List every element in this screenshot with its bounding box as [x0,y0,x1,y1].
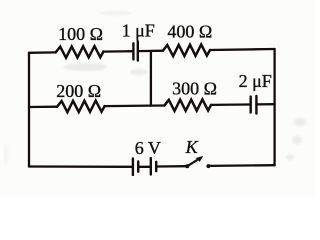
svg-text:200 Ω: 200 Ω [56,81,101,101]
svg-text:100 Ω: 100 Ω [58,24,103,44]
svg-text:2 μF: 2 μF [239,71,272,91]
svg-text:K: K [185,137,199,157]
svg-text:6 V: 6 V [135,138,161,158]
svg-text:400 Ω: 400 Ω [167,22,212,42]
svg-text:1 μF: 1 μF [122,21,155,41]
svg-text:300 Ω: 300 Ω [172,79,217,99]
